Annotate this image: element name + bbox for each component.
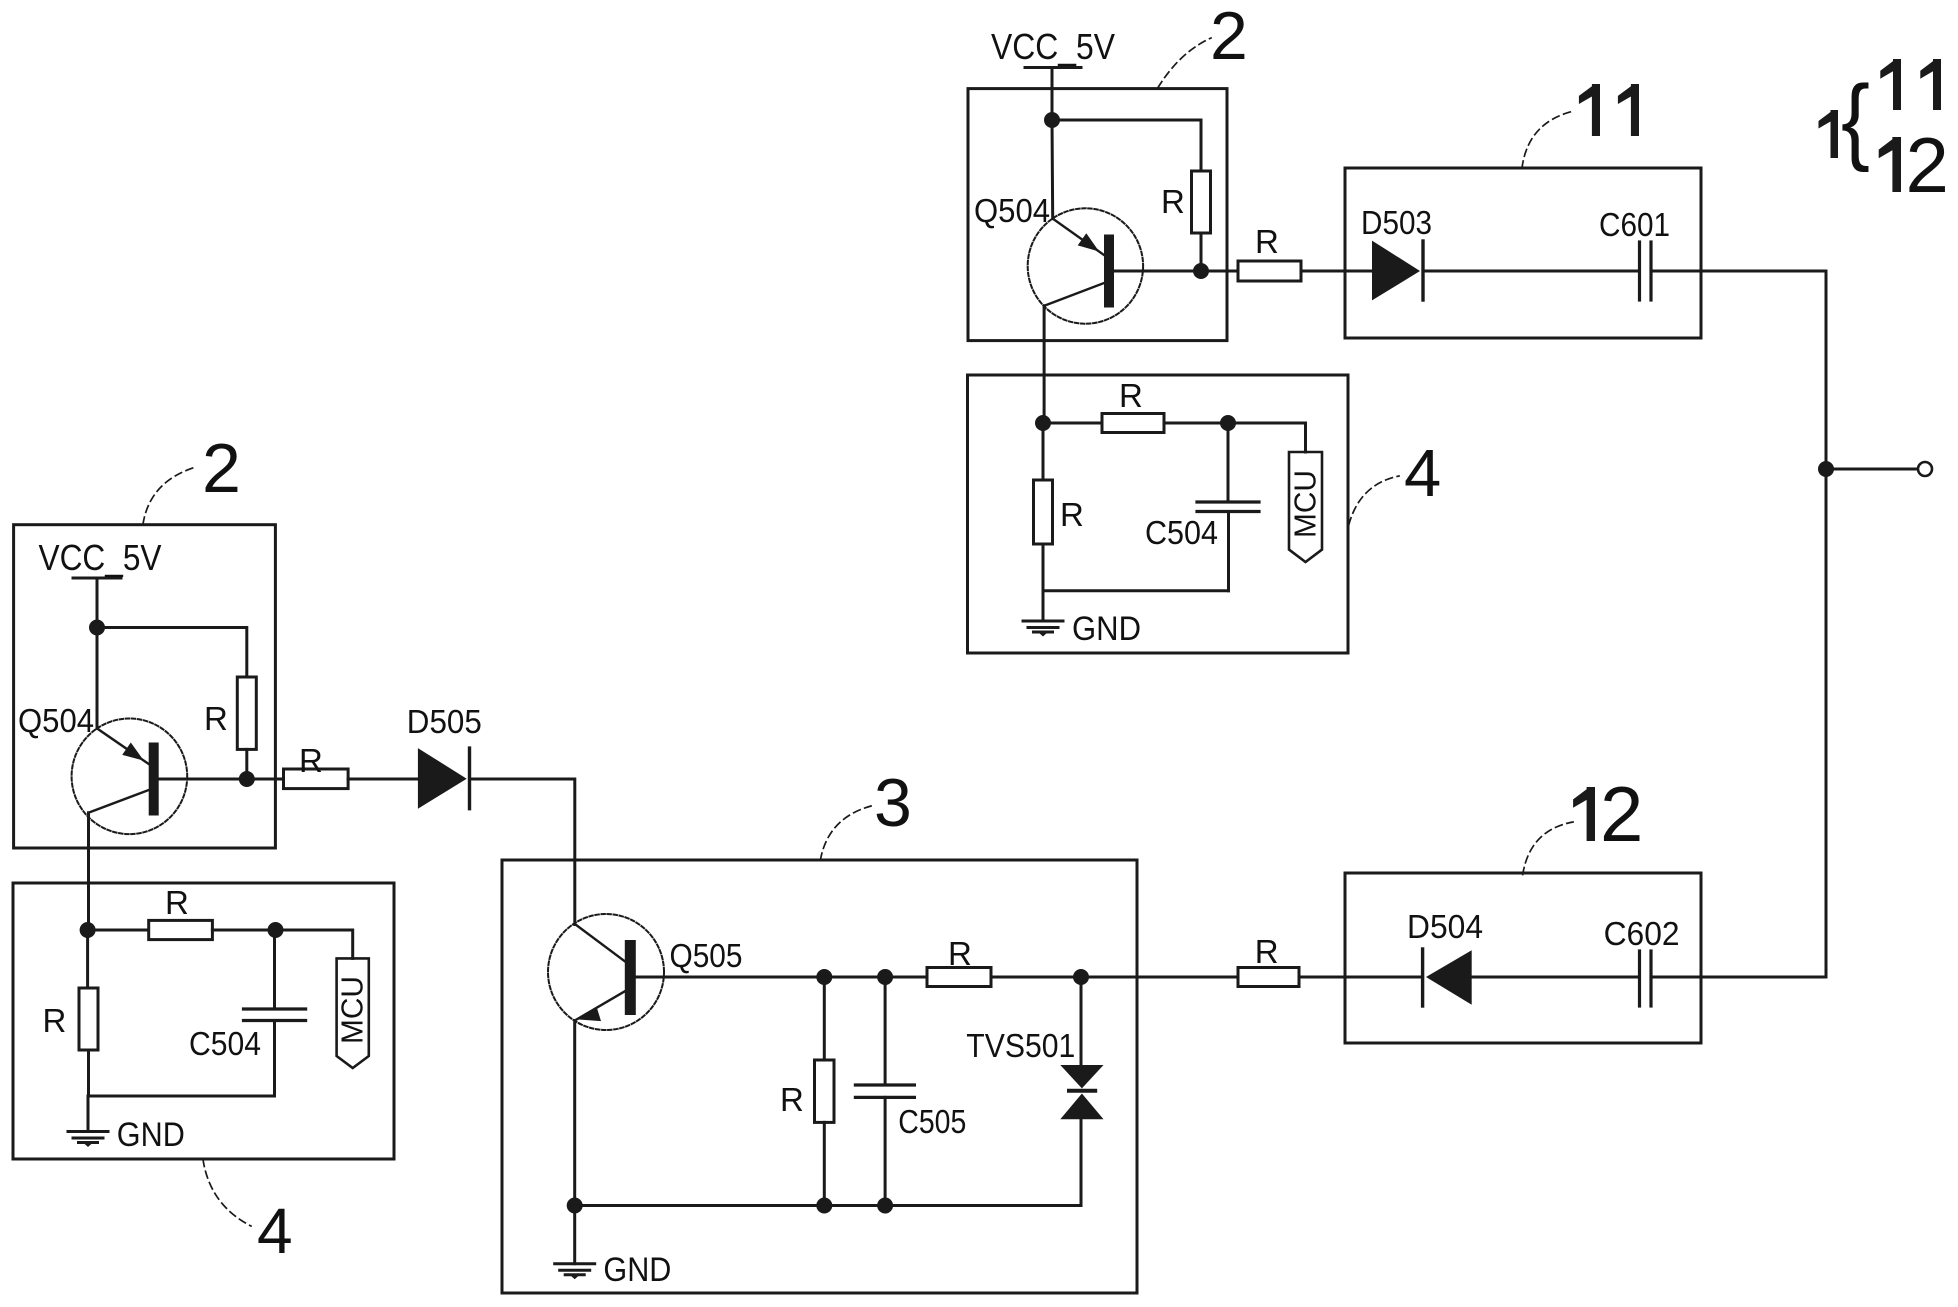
label 11 (group) bbox=[1880, 59, 1901, 110]
wire TVS bottom to rail bbox=[1080, 1119, 1083, 1205]
transistor Q504 (left) : emitter wire bbox=[96, 628, 99, 729]
wire diode D505 to module 3 bbox=[470, 779, 575, 925]
wire resistor to ground wire (upper 4) bbox=[1042, 544, 1045, 591]
capacitor C504 bottom plate (upper 4) bbox=[1197, 510, 1259, 513]
MCU tag pentagon (upper 4) bbox=[1289, 452, 1322, 562]
wire resistor to right node (left 4) bbox=[212, 929, 275, 932]
transistor Q504 (left) : emitter arrow (PNP) bbox=[122, 743, 144, 761]
transistor Q504 (left) : circle bbox=[72, 719, 188, 835]
resistor R bias (upper block 2) bbox=[1192, 171, 1211, 233]
wire resistor to right node (upper 4) bbox=[1164, 422, 1228, 425]
transistor Q505 : emitter diagonal bbox=[575, 991, 625, 1020]
transistor Q504 (upper) : base bar bbox=[1104, 235, 1114, 308]
svg-text:3: 3 bbox=[874, 765, 912, 841]
transistor Q505 : base lead bbox=[636, 976, 825, 979]
resistor R series (left output) bbox=[284, 769, 349, 789]
module box 3 (driving unit) bbox=[502, 860, 1137, 1293]
svg-text:R: R bbox=[204, 700, 228, 737]
ground symbol (upper 4) bbox=[1023, 621, 1063, 637]
svg-text:R: R bbox=[165, 884, 189, 921]
wire capacitor top connection (upper 4) bbox=[1227, 423, 1230, 502]
svg-text:R: R bbox=[1119, 377, 1143, 414]
wire emitter down to ground rail bbox=[573, 1021, 576, 1206]
svg-text:VCC_5V: VCC_5V bbox=[991, 26, 1115, 67]
transistor Q505 : emitter arrow (outward) bbox=[577, 1007, 601, 1021]
wire capacitor C601 to right rail bbox=[1651, 270, 1826, 273]
wire base line through nodes to series resistor (block 3) bbox=[824, 976, 927, 979]
wire bias resistor to base node (upper) bbox=[1200, 233, 1203, 271]
module box 2 (upper detection unit) bbox=[968, 89, 1227, 341]
svg-text:2: 2 bbox=[1600, 770, 1643, 858]
capacitor C504 top plate (left 4) bbox=[244, 1007, 306, 1010]
svg-text:C504: C504 bbox=[189, 1025, 261, 1062]
wire node to output terminal bbox=[1826, 468, 1918, 471]
leader line label 2 (upper) bbox=[1158, 38, 1211, 88]
transistor Q505 : base bar bbox=[625, 940, 636, 1015]
svg-text:R: R bbox=[1161, 183, 1185, 220]
label 12 (module) bbox=[1573, 787, 1595, 841]
svg-text:2: 2 bbox=[1210, 0, 1248, 74]
wire capacitor C602 to right rail bbox=[1651, 976, 1826, 979]
node base junction (upper) bbox=[1193, 263, 1209, 279]
capacitor C602 : left plate bbox=[1638, 951, 1641, 1006]
wire collector down into module 4 (left) bbox=[87, 813, 90, 930]
svg-text:R: R bbox=[780, 1081, 804, 1118]
MCU tag pentagon (left 4) bbox=[337, 958, 369, 1068]
diode D503 : cathode bar bbox=[1421, 241, 1424, 300]
diode D504 : anode bar bbox=[1421, 949, 1424, 1006]
svg-text:Q504: Q504 bbox=[18, 702, 94, 739]
wire to ground symbol (left 4) bbox=[87, 1096, 90, 1132]
module box 11 (first coupling unit) bbox=[1345, 168, 1701, 338]
transistor Q504 (upper) : collector diagonal bbox=[1044, 283, 1104, 306]
module box 12 (second coupling unit) bbox=[1345, 873, 1701, 1043]
resistor R series (upper output) bbox=[1238, 261, 1301, 281]
wire series resistor to module 11 bbox=[1301, 270, 1372, 273]
TVS diode TVS501 : lower triangle bbox=[1060, 1094, 1103, 1120]
svg-text:C601: C601 bbox=[1599, 206, 1670, 243]
svg-text:R: R bbox=[948, 935, 972, 972]
transistor Q505 : collector diagonal bbox=[576, 925, 626, 963]
node rail capacitor (block 3) bbox=[877, 1198, 893, 1214]
TVS diode TVS501 : middle bar bbox=[1069, 1089, 1095, 1093]
leader line label 3 bbox=[820, 806, 871, 860]
capacitor C504 top plate (upper 4) bbox=[1197, 500, 1259, 503]
wire collector down into module 4 (upper) bbox=[1043, 306, 1046, 423]
svg-text:R: R bbox=[1060, 496, 1084, 533]
diode D504 : triangle (pointing left) bbox=[1426, 950, 1472, 1005]
leader line label 12 bbox=[1523, 822, 1573, 875]
label 1 (group) bbox=[1819, 110, 1839, 158]
wire right vertical rail bbox=[1825, 271, 1828, 977]
resistor R horizontal (upper 4) bbox=[1102, 414, 1164, 433]
node output junction on rail bbox=[1818, 461, 1834, 477]
wire block 3 output to series resistor bbox=[1081, 976, 1238, 979]
transistor Q504 (left) : emitter diagonal bbox=[97, 728, 149, 764]
svg-text:VCC_5V: VCC_5V bbox=[39, 537, 162, 578]
wire junction to bias resistor (left) bbox=[97, 628, 247, 678]
wire VCC to junction (left) bbox=[96, 578, 99, 628]
wire R vertical top connection (block 3) bbox=[823, 977, 826, 1060]
leader line label 4 (upper) bbox=[1349, 476, 1399, 525]
svg-text:MCU: MCU bbox=[1288, 470, 1323, 538]
ground symbol (block 3) bbox=[555, 1264, 595, 1280]
svg-text:4: 4 bbox=[1404, 436, 1441, 511]
wire capacitor top connection (left 4) bbox=[273, 930, 276, 1009]
svg-text:2: 2 bbox=[202, 429, 241, 507]
wire capacitor C505 bottom to rail bbox=[884, 1097, 887, 1205]
wire resistor to module 12 bbox=[1299, 976, 1423, 979]
wire node down to vertical resistor (left 4) bbox=[86, 930, 89, 988]
wire node to series resistor (left) bbox=[247, 778, 284, 781]
svg-text:4: 4 bbox=[257, 1195, 293, 1267]
node capacitor top (upper 4) bbox=[1220, 415, 1236, 431]
transistor Q504 (upper) : emitter arrow (PNP) bbox=[1078, 233, 1099, 251]
node collector entry (left module 4) bbox=[80, 922, 96, 938]
leader line label 11 bbox=[1522, 111, 1574, 168]
node TVS top (block 3) bbox=[1073, 969, 1089, 985]
wire diode D504 to capacitor C602 bbox=[1472, 976, 1640, 979]
node rail resistor (block 3) bbox=[816, 1198, 832, 1214]
module box 4 (left MCU sampling unit) bbox=[13, 883, 394, 1159]
wire diode to capacitor C601 bbox=[1423, 270, 1640, 273]
leader line label 2 (left) bbox=[143, 467, 196, 524]
transistor Q504 (left) : base lead bbox=[159, 778, 247, 781]
capacitor C504 bottom plate (left 4) bbox=[244, 1019, 306, 1022]
wire resistor to TVS node (block 3) bbox=[991, 976, 1081, 979]
svg-text:D504: D504 bbox=[1407, 908, 1483, 945]
wire R vertical bottom to rail (block 3) bbox=[823, 1122, 826, 1205]
svg-text:2: 2 bbox=[1906, 121, 1949, 209]
transistor Q504 (upper) : base lead bbox=[1114, 270, 1201, 273]
wire node to series resistor (upper) bbox=[1201, 270, 1238, 273]
svg-text:D505: D505 bbox=[407, 703, 482, 740]
wire capacitor bottom to return (left 4) bbox=[273, 1021, 276, 1097]
node VCC junction (left) bbox=[89, 620, 105, 636]
resistor R series (block 3 to block 12) bbox=[1238, 968, 1299, 987]
wire node down to vertical resistor (upper 4) bbox=[1042, 423, 1045, 480]
svg-text:C505: C505 bbox=[898, 1103, 966, 1140]
capacitor C505 top plate bbox=[855, 1083, 914, 1086]
transistor Q504 (left) : base bar bbox=[149, 743, 159, 816]
wire bias resistor to base node (left) bbox=[245, 749, 248, 779]
ground symbol (left 4) bbox=[68, 1132, 108, 1148]
wire to ground symbol (block 3) bbox=[573, 1206, 576, 1264]
svg-text:{: { bbox=[1841, 66, 1870, 173]
svg-text:GND: GND bbox=[117, 1116, 185, 1154]
transistor Q504 (left) : collector diagonal bbox=[89, 790, 149, 813]
label 12 (group) bbox=[1879, 137, 1901, 192]
svg-text:R: R bbox=[1255, 223, 1279, 260]
diode D503 : triangle bbox=[1372, 241, 1420, 301]
wire node to MCU tag (upper 4) bbox=[1228, 423, 1306, 452]
wire TVS top connection bbox=[1080, 977, 1083, 1065]
power symbol VCC_5V (left) bbox=[73, 577, 121, 580]
svg-text:MCU: MCU bbox=[335, 976, 370, 1044]
transistor Q504 (upper) : emitter wire from VCC node bbox=[1051, 120, 1055, 219]
svg-text:C504: C504 bbox=[1145, 514, 1218, 551]
label 11 (module) bbox=[1579, 84, 1600, 136]
capacitor C602 : right plate bbox=[1649, 951, 1652, 1006]
node base resistor top (block 3) bbox=[816, 969, 832, 985]
node rail left (block 3) bbox=[567, 1198, 583, 1214]
capacitor C601 : left plate bbox=[1638, 242, 1641, 300]
wire junction to bias resistor (upper) bbox=[1052, 120, 1201, 171]
svg-text:D503: D503 bbox=[1361, 204, 1432, 241]
svg-text:GND: GND bbox=[1072, 610, 1141, 648]
node capacitor top (block 3) bbox=[877, 969, 893, 985]
svg-text:GND: GND bbox=[603, 1251, 671, 1289]
wire resistor to ground wire (left 4) bbox=[87, 1050, 90, 1096]
svg-text:Q505: Q505 bbox=[670, 937, 743, 974]
svg-text:Q504: Q504 bbox=[974, 192, 1050, 229]
module box 2 (left detection unit) bbox=[14, 525, 276, 848]
wire bottom return (left 4) bbox=[88, 1095, 275, 1098]
transistor Q504 (upper) : emitter diagonal bbox=[1053, 219, 1104, 255]
transistor Q505 : circle bbox=[548, 914, 664, 1030]
svg-text:C602: C602 bbox=[1604, 915, 1680, 952]
wire bottom return (upper 4) bbox=[1043, 589, 1229, 592]
wire capacitor C505 top connection bbox=[884, 977, 887, 1085]
transistor Q504 (upper) : circle bbox=[1028, 208, 1143, 323]
wire series resistor to diode D505 bbox=[348, 778, 418, 781]
resistor R bias (left block 2) bbox=[237, 677, 256, 749]
diode D505 : triangle bbox=[418, 748, 467, 809]
svg-text:R: R bbox=[1255, 933, 1279, 970]
node collector entry (upper module 4) bbox=[1035, 415, 1051, 431]
node VCC junction (upper) bbox=[1044, 112, 1060, 128]
capacitor C601 : right plate bbox=[1649, 242, 1652, 300]
wire node to horizontal resistor (left 4) bbox=[88, 929, 149, 932]
terminal open circle bbox=[1918, 462, 1932, 476]
svg-text:R: R bbox=[43, 1002, 67, 1039]
svg-text:R: R bbox=[299, 742, 323, 779]
module box 4 (upper MCU sampling unit) bbox=[968, 375, 1349, 653]
diode D505 : cathode bar bbox=[468, 748, 471, 809]
capacitor C505 bottom plate bbox=[855, 1096, 914, 1099]
node capacitor top (left 4) bbox=[268, 922, 284, 938]
resistor R vertical (upper 4) bbox=[1034, 480, 1053, 544]
wire to ground symbol (upper 4) bbox=[1042, 591, 1045, 621]
resistor R horizontal (left 4) bbox=[149, 920, 213, 939]
wire node to MCU tag (left 4) bbox=[276, 930, 353, 958]
wire node to horizontal resistor (upper 4) bbox=[1043, 422, 1102, 425]
resistor R horizontal (block 3) bbox=[927, 968, 991, 987]
wire VCC to junction bbox=[1051, 68, 1054, 121]
wire ground rail (block 3) bbox=[575, 1204, 1081, 1207]
svg-text:TVS501: TVS501 bbox=[966, 1027, 1075, 1064]
resistor R vertical (block 3) bbox=[815, 1060, 835, 1122]
TVS diode TVS501 : upper triangle bbox=[1060, 1065, 1103, 1088]
node base junction (left) bbox=[239, 771, 255, 787]
power symbol VCC_5V (upper) bbox=[1025, 66, 1081, 69]
resistor R vertical (left 4) bbox=[79, 988, 98, 1050]
leader line label 4 (left) bbox=[203, 1160, 251, 1227]
wire capacitor bottom to return (upper 4) bbox=[1227, 512, 1230, 591]
